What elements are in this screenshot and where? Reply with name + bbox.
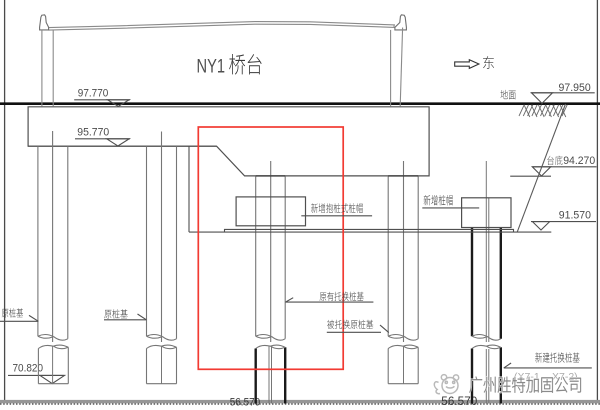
abutment footing bottom edge (left part) <box>28 145 217 147</box>
excavation slope line <box>517 104 565 232</box>
pile P3 lower segment (bold new section) <box>254 349 256 404</box>
pile P1 lower segment <box>37 349 39 384</box>
svg-text:91.570: 91.570 <box>559 210 591 222</box>
pile P3 original being underpinned: upper <box>255 176 257 336</box>
pile P1 original (far left) upper <box>37 146 39 336</box>
label new pile cap <box>424 195 431 205</box>
bottom compressed break band <box>0 400 600 403</box>
watermark logo <box>434 375 458 394</box>
label original pile 1 <box>2 309 9 318</box>
elevation taidi 94.270 <box>547 156 554 165</box>
label original pile being underpinned <box>327 320 334 329</box>
abutment front wall lines <box>41 30 43 106</box>
svg-text:97.770: 97.770 <box>78 88 109 100</box>
beam step vertical <box>188 146 190 232</box>
drawing frame right border <box>596 0 598 401</box>
ground hatching <box>519 105 524 116</box>
drawing frame left border <box>4 0 6 401</box>
pile P5 new underpinning pile (bold) upper <box>471 228 473 337</box>
svg-text:95.770: 95.770 <box>77 126 109 138</box>
abutment back wall lines <box>390 30 392 106</box>
bridge deck slab <box>49 22 395 28</box>
pile P3/P4 top edge darker <box>256 175 286 177</box>
abutment body outline <box>28 107 429 176</box>
pile P5 lower segment <box>471 349 473 404</box>
label newly built underpinning pile <box>535 352 542 362</box>
label original pile 2 <box>104 310 111 319</box>
label east <box>483 56 494 69</box>
new pile cap (right) box <box>462 198 511 228</box>
label new pile-embracing cap <box>311 203 318 213</box>
watermark text <box>469 377 581 393</box>
svg-text:NY1: NY1 <box>197 57 226 78</box>
new pile-embracing cap box <box>236 197 305 226</box>
svg-text:94.270: 94.270 <box>563 155 595 167</box>
pile P4 original upper <box>387 176 389 336</box>
pile P4 lower segment <box>387 349 389 384</box>
east direction arrow <box>455 60 479 69</box>
beam top line <box>225 229 514 232</box>
pile P2 lower segment <box>146 349 148 384</box>
beam bottom line <box>189 231 551 233</box>
right parapet post <box>395 15 407 30</box>
red highlight rectangle <box>198 127 343 369</box>
ground line (thick) <box>0 102 600 105</box>
label existing underpinned pile <box>320 292 327 301</box>
pile P2 original upper <box>146 146 148 336</box>
pile P5 break wave <box>472 334 501 340</box>
left parapet post <box>40 15 49 30</box>
label ground surface <box>501 90 508 99</box>
